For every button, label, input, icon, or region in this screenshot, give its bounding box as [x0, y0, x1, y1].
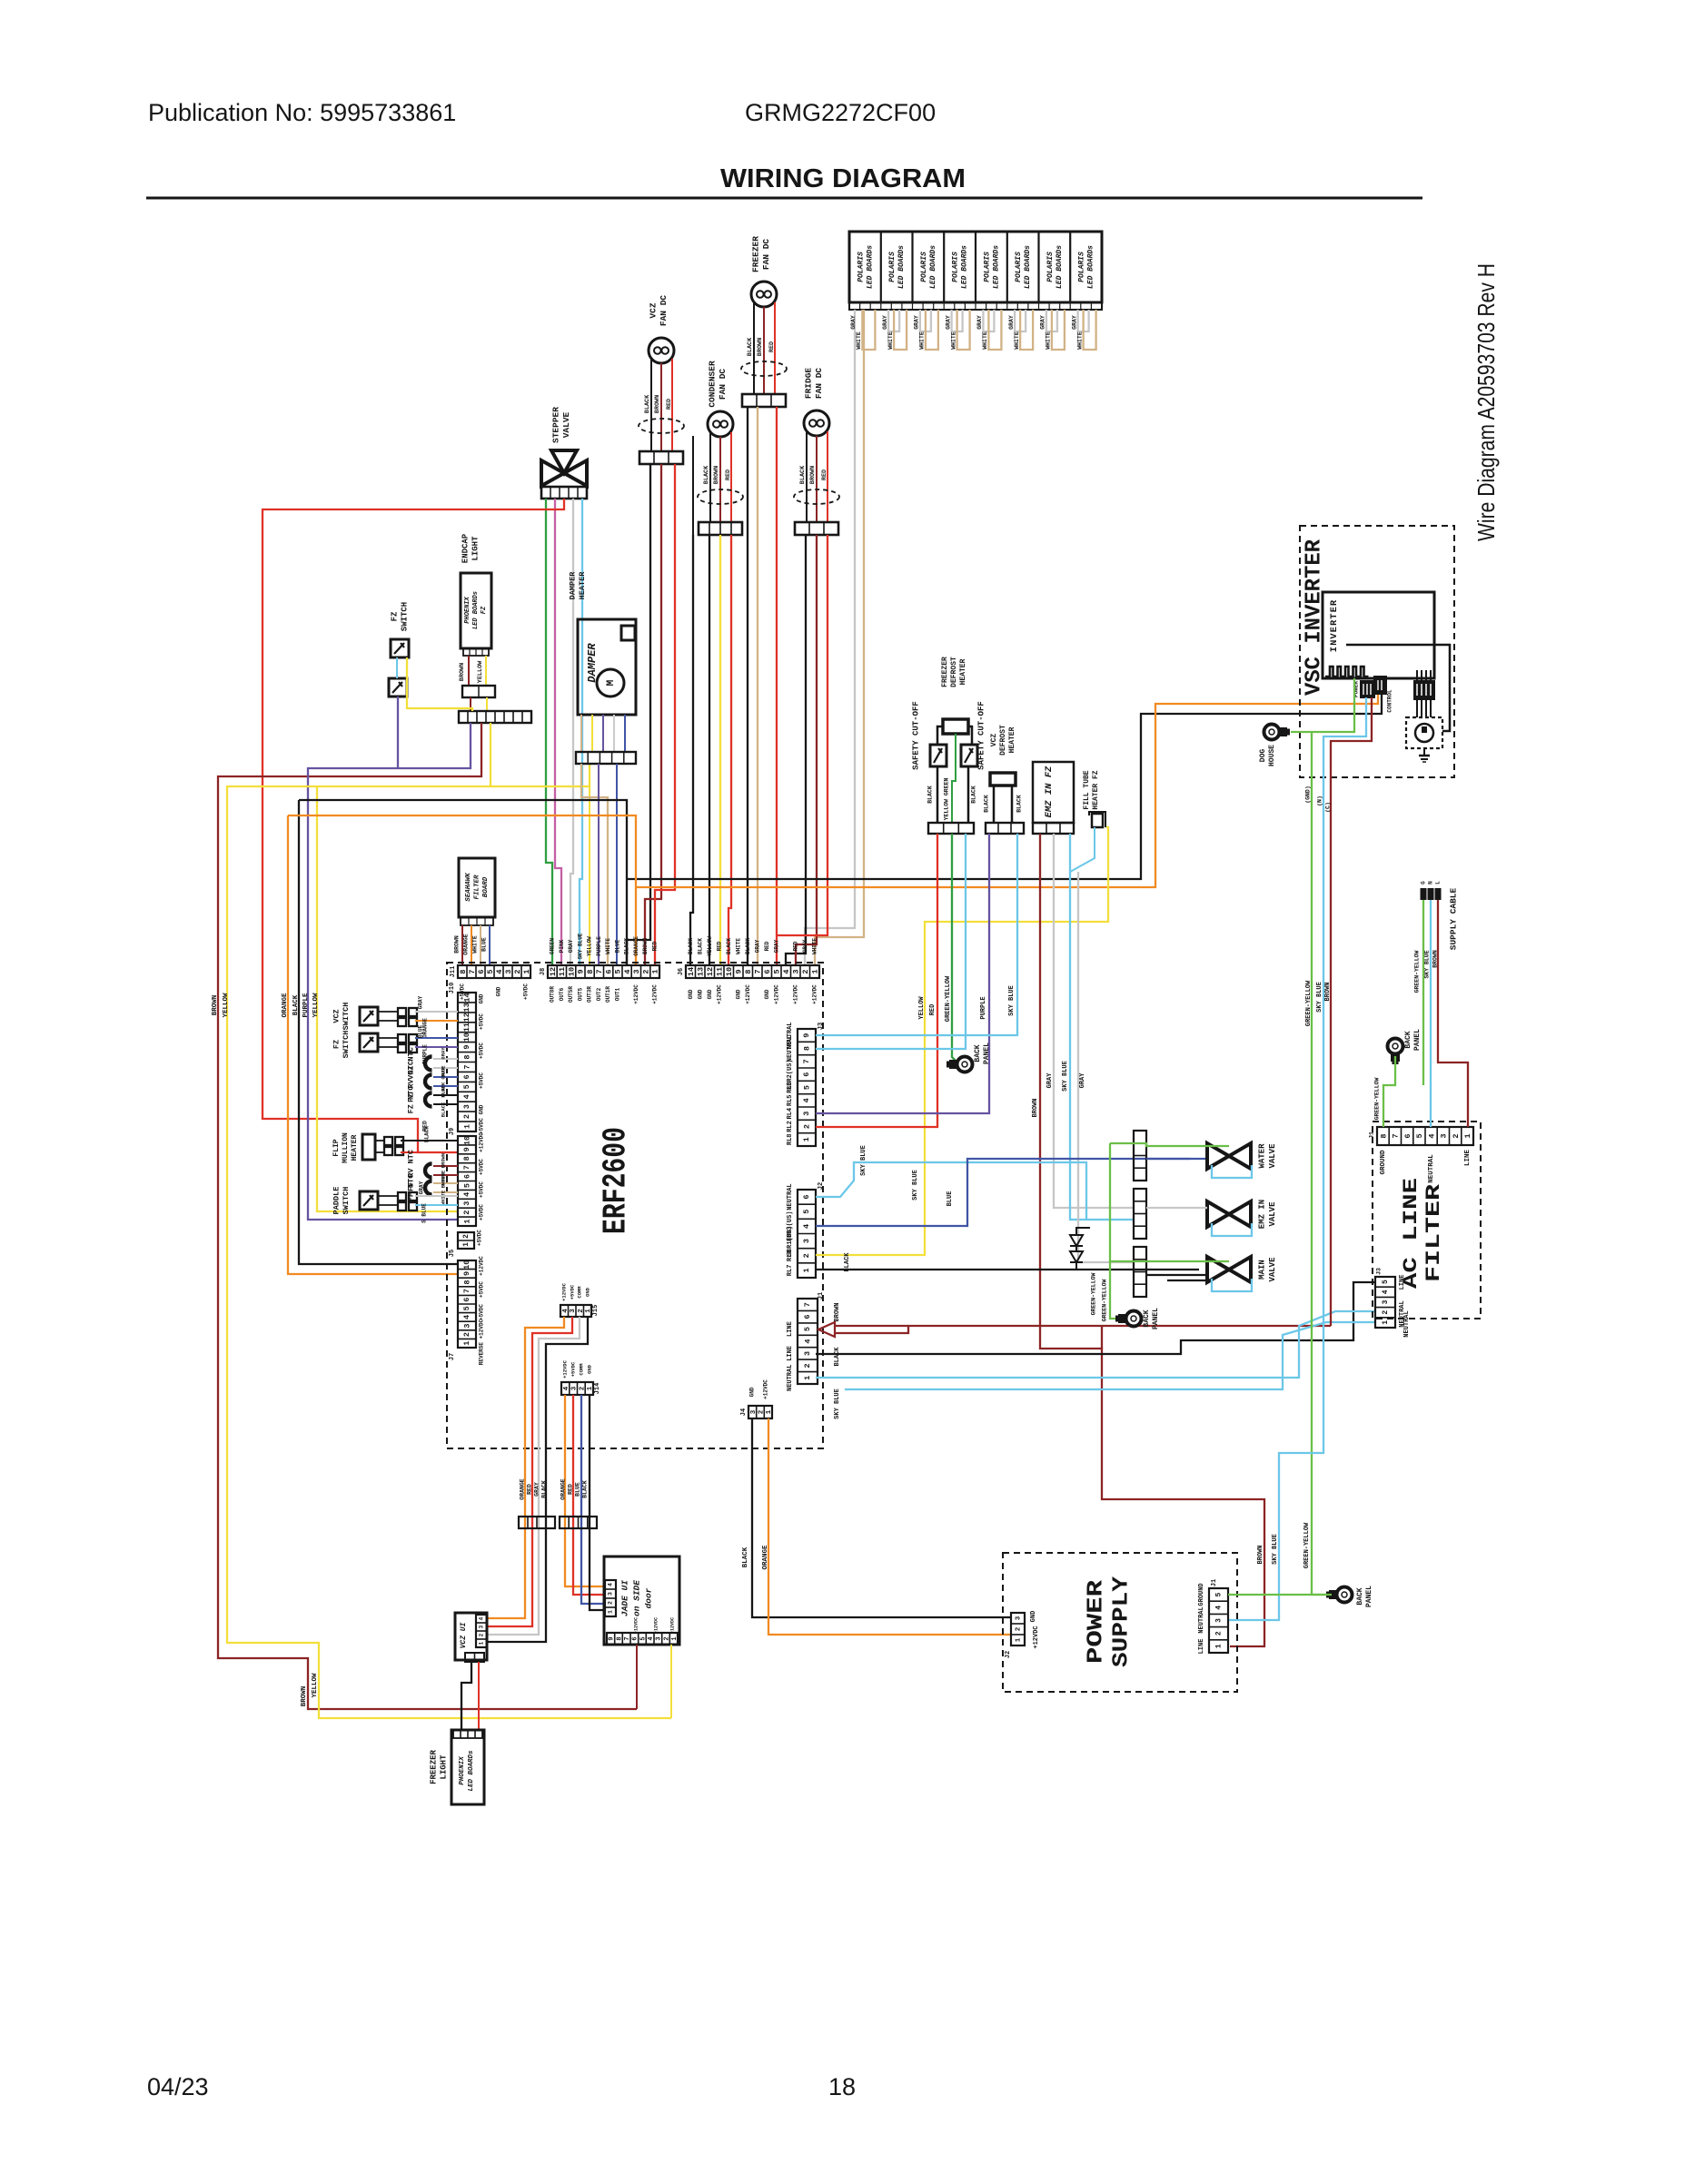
svg-text:GRAY: GRAY — [1046, 1072, 1054, 1089]
svg-text:10: 10 — [462, 1136, 471, 1145]
svg-text:J14: J14 — [594, 1383, 601, 1395]
svg-text:2: 2 — [513, 969, 522, 973]
svg-text:3: 3 — [1382, 1300, 1390, 1304]
svg-text:SKY BLUE: SKY BLUE — [577, 933, 583, 959]
svg-text:BROWN: BROWN — [459, 663, 466, 681]
svg-text:LED BOARDs: LED BOARDs — [1056, 245, 1064, 289]
svg-text:5: 5 — [1215, 1593, 1224, 1597]
svg-text:FLIP: FLIP — [332, 1139, 341, 1156]
svg-text:+5VDC: +5VDC — [479, 1181, 485, 1198]
svg-text:GRAY: GRAY — [773, 939, 779, 953]
svg-text:2: 2 — [1015, 1626, 1022, 1631]
svg-text:REVERSE +12VDC: REVERSE +12VDC — [479, 1319, 485, 1365]
svg-text:SKY BLUE: SKY BLUE — [834, 1388, 841, 1419]
svg-text:GRAY: GRAY — [976, 315, 983, 330]
svg-text:GRMG2272CF00: GRMG2272CF00 — [745, 99, 936, 126]
svg-text:3: 3 — [462, 1104, 471, 1109]
svg-text:4: 4 — [479, 1616, 485, 1620]
svg-text:RED: RED — [764, 941, 770, 951]
svg-text:1: 1 — [462, 1124, 471, 1129]
svg-text:YELLOW: YELLOW — [223, 993, 230, 1018]
svg-text:+5VDC: +5VDC — [479, 1118, 485, 1134]
svg-text:SKY BLUE: SKY BLUE — [1062, 1061, 1069, 1092]
svg-text:1: 1 — [766, 1409, 773, 1414]
svg-text:BLACK: BLACK — [440, 1082, 446, 1097]
svg-text:GND: GND — [496, 986, 502, 996]
svg-text:POLARIS: POLARIS — [952, 252, 960, 282]
svg-text:HEATER: HEATER — [959, 658, 967, 685]
svg-text:7: 7 — [462, 1289, 471, 1293]
svg-text:PANEL: PANEL — [1365, 1586, 1373, 1607]
svg-text:12: 12 — [462, 1013, 471, 1022]
svg-text:GRAY: GRAY — [568, 939, 574, 953]
svg-text:+5VDC: +5VDC — [479, 1043, 485, 1059]
svg-text:BROWN: BROWN — [834, 1302, 841, 1321]
svg-text:SKY BLUE: SKY BLUE — [912, 1170, 919, 1201]
svg-text:3: 3 — [802, 1239, 811, 1243]
svg-text:1: 1 — [802, 1268, 811, 1272]
svg-text:VALVE: VALVE — [1268, 1201, 1277, 1227]
svg-text:BROWN: BROWN — [809, 466, 817, 484]
svg-text:3: 3 — [791, 969, 800, 973]
svg-text:5: 5 — [614, 969, 623, 973]
svg-text:+12VDC: +12VDC — [633, 1617, 639, 1634]
svg-text:GREEN-YELLOW: GREEN-YELLOW — [1102, 1279, 1108, 1321]
svg-text:J10: J10 — [449, 983, 456, 994]
svg-text:EMZ IN FZ: EMZ IN FZ — [1044, 766, 1055, 817]
svg-text:BACK: BACK — [974, 1044, 982, 1062]
svg-text:9: 9 — [577, 969, 586, 973]
svg-text:HEATER: HEATER — [1008, 726, 1016, 753]
svg-text:OUT1: OUT1 — [614, 987, 620, 1001]
svg-text:FAN DC: FAN DC — [814, 368, 824, 400]
svg-text:LED BOARDs: LED BOARDs — [1087, 245, 1095, 289]
svg-text:RL8: RL8 — [787, 1133, 794, 1145]
svg-text:BROWN: BROWN — [1032, 1098, 1039, 1117]
svg-text:POWER: POWER — [1084, 1579, 1108, 1664]
svg-text:4: 4 — [802, 1098, 811, 1102]
svg-text:SUPPLY: SUPPLY — [1109, 1576, 1134, 1667]
svg-text:4: 4 — [495, 969, 504, 973]
svg-text:3: 3 — [462, 1201, 471, 1206]
svg-text:18: 18 — [828, 2073, 856, 2100]
svg-text:13: 13 — [696, 967, 705, 976]
svg-text:6: 6 — [803, 1315, 812, 1319]
svg-text:SKY BLUE: SKY BLUE — [1008, 985, 1016, 1016]
svg-text:12: 12 — [706, 967, 715, 976]
svg-text:1: 1 — [1463, 1133, 1472, 1138]
svg-text:PINK: PINK — [559, 939, 565, 953]
svg-text:9: 9 — [609, 1636, 616, 1640]
svg-text:BLACK: BLACK — [834, 1347, 841, 1367]
svg-text:(C): (C) — [1325, 802, 1332, 813]
svg-text:2: 2 — [579, 1386, 586, 1390]
svg-text:BLACK: BLACK — [697, 938, 703, 954]
svg-text:WHITE: WHITE — [735, 938, 741, 954]
svg-text:NEUTRAL: NEUTRAL — [787, 1365, 794, 1391]
svg-text:MULLION: MULLION — [342, 1132, 350, 1163]
svg-text:WHITE: WHITE — [919, 331, 926, 350]
svg-text:6: 6 — [632, 1636, 639, 1640]
svg-text:+12VDC: +12VDC — [773, 984, 779, 1004]
svg-text:+12VDC: +12VDC — [1033, 1626, 1040, 1648]
svg-text:GROUND: GROUND — [1198, 1583, 1205, 1606]
svg-text:GRAY: GRAY — [440, 1047, 446, 1060]
svg-text:BLACK: BLACK — [844, 1252, 851, 1272]
svg-text:9: 9 — [734, 969, 743, 973]
svg-text:BROWN: BROWN — [1257, 1545, 1264, 1564]
svg-text:1: 1 — [462, 1242, 471, 1247]
svg-text:RED: RED — [929, 1004, 937, 1016]
svg-text:ORANGE: ORANGE — [282, 993, 289, 1018]
svg-text:POLARIS: POLARIS — [1046, 252, 1055, 282]
svg-text:LINE: LINE — [1198, 1639, 1205, 1655]
svg-text:3: 3 — [504, 969, 513, 973]
svg-text:4: 4 — [562, 1309, 570, 1313]
svg-text:2: 2 — [802, 1253, 811, 1258]
svg-text:3: 3 — [803, 1351, 812, 1356]
svg-text:LINE: LINE — [1464, 1150, 1472, 1167]
svg-text:BLUE: BLUE — [418, 1024, 424, 1038]
svg-text:GRAY: GRAY — [534, 1482, 540, 1497]
svg-text:1: 1 — [651, 969, 660, 973]
svg-text:GRAY: GRAY — [419, 1181, 425, 1194]
svg-text:+12VDC: +12VDC — [811, 984, 818, 1004]
svg-text:WHITE: WHITE — [856, 331, 862, 350]
svg-text:OUT5: OUT5 — [577, 987, 583, 1001]
svg-text:BLACK: BLACK — [624, 938, 630, 954]
svg-text:1: 1 — [1015, 1637, 1022, 1642]
svg-text:BLUE: BLUE — [440, 1065, 446, 1078]
svg-text:+12VDC: +12VDC — [561, 1359, 568, 1379]
svg-text:RED: RED — [422, 1121, 429, 1132]
svg-text:+5VDC: +5VDC — [479, 1013, 485, 1030]
svg-text:4: 4 — [1427, 1133, 1436, 1138]
svg-text:WHITE: WHITE — [887, 331, 894, 350]
svg-text:HEATER FZ: HEATER FZ — [1092, 770, 1100, 809]
svg-text:1: 1 — [479, 1641, 485, 1645]
svg-text:MAIN: MAIN — [1257, 1260, 1266, 1280]
svg-text:WATER: WATER — [1257, 1143, 1266, 1169]
svg-text:INVERTER: INVERTER — [1329, 599, 1340, 652]
svg-text:(N): (N) — [1317, 796, 1323, 806]
svg-text:G: G — [1421, 881, 1427, 884]
svg-text:BLACK: BLACK — [747, 337, 754, 356]
svg-text:BROWN: BROWN — [757, 338, 764, 356]
svg-text:11: 11 — [715, 967, 724, 976]
svg-text:+5VDC: +5VDC — [477, 1230, 483, 1246]
svg-text:14: 14 — [687, 967, 696, 976]
svg-text:RED: RED — [768, 341, 776, 352]
svg-text:7: 7 — [462, 1165, 471, 1170]
svg-text:GREEN-YELLOW: GREEN-YELLOW — [1091, 1272, 1097, 1315]
svg-text:+12VDC: +12VDC — [479, 1256, 485, 1276]
svg-text:+5VDC: +5VDC — [479, 1072, 485, 1089]
svg-text:7: 7 — [1392, 1133, 1401, 1138]
svg-text:YELLOW: YELLOW — [477, 660, 484, 683]
svg-text:GRAY: GRAY — [850, 315, 857, 330]
svg-text:3: 3 — [462, 1323, 471, 1328]
svg-text:CONTROL: CONTROL — [1387, 689, 1393, 713]
svg-text:SEAHAWK: SEAHAWK — [465, 873, 472, 902]
svg-text:NEUTRAL: NEUTRAL — [787, 1035, 794, 1062]
svg-text:SKY BLUE: SKY BLUE — [1316, 982, 1323, 1013]
svg-text:2: 2 — [1215, 1631, 1224, 1636]
svg-text:VALVE: VALVE — [561, 411, 571, 438]
svg-text:FREEZER: FREEZER — [429, 1750, 438, 1784]
svg-text:FZ: FZ — [481, 606, 488, 614]
svg-text:FAN DC: FAN DC — [761, 239, 771, 271]
svg-text:BLACK: BLACK — [644, 394, 651, 413]
svg-text:1: 1 — [803, 1376, 812, 1380]
svg-text:POLARIS: POLARIS — [984, 252, 992, 282]
svg-text:8: 8 — [462, 1156, 471, 1161]
svg-text:12: 12 — [549, 967, 558, 976]
svg-text:+12VDC: +12VDC — [633, 984, 639, 1004]
svg-text:6: 6 — [604, 969, 613, 973]
svg-text:WHITE: WHITE — [950, 331, 956, 350]
svg-text:GRAY: GRAY — [1040, 315, 1046, 330]
svg-text:GREEN-YELLOW: GREEN-YELLOW — [1374, 1077, 1381, 1120]
svg-text:5: 5 — [639, 1636, 647, 1640]
svg-text:4: 4 — [1382, 1290, 1390, 1294]
svg-text:5: 5 — [1415, 1133, 1424, 1138]
svg-text:6: 6 — [802, 1072, 811, 1077]
svg-text:RL4: RL4 — [787, 1108, 794, 1120]
svg-text:GND: GND — [688, 989, 694, 999]
svg-text:ORANGE: ORANGE — [560, 1478, 567, 1500]
svg-text:J2: J2 — [818, 1182, 825, 1190]
svg-text:6: 6 — [462, 1298, 471, 1302]
svg-text:LIGHT: LIGHT — [439, 1754, 448, 1780]
svg-text:YELLOW: YELLOW — [312, 993, 320, 1018]
svg-text:SUPPLY CABLE: SUPPLY CABLE — [1449, 888, 1459, 951]
svg-text:3: 3 — [1015, 1616, 1022, 1620]
svg-text:OUT6: OUT6 — [559, 987, 565, 1001]
svg-text:5: 5 — [462, 1306, 471, 1310]
svg-text:13: 13 — [462, 1003, 471, 1012]
svg-text:ORANGE: ORANGE — [463, 934, 470, 955]
svg-text:COMM: COMM — [578, 1363, 584, 1376]
svg-text:WIRING DIAGRAM: WIRING DIAGRAM — [720, 164, 966, 193]
svg-text:YELLOW: YELLOW — [312, 1673, 319, 1698]
svg-text:+12VDC: +12VDC — [763, 1379, 769, 1399]
svg-text:POLARIS: POLARIS — [1015, 252, 1023, 282]
svg-text:J6: J6 — [678, 968, 685, 975]
svg-text:BROWN: BROWN — [301, 1686, 308, 1707]
svg-text:+12VDC: +12VDC — [651, 984, 658, 1004]
svg-text:4: 4 — [462, 1192, 471, 1197]
svg-text:WHITE: WHITE — [1046, 331, 1052, 350]
svg-text:FREEZER: FREEZER — [941, 657, 949, 687]
svg-text:SAFETY CUT-OFF: SAFETY CUT-OFF — [911, 701, 920, 770]
svg-text:BLACK: BLACK — [799, 465, 807, 484]
svg-text:4: 4 — [623, 969, 632, 973]
svg-text:4: 4 — [462, 1094, 471, 1099]
svg-text:3: 3 — [656, 1636, 663, 1640]
svg-text:5: 5 — [802, 1085, 811, 1090]
svg-text:GND: GND — [707, 989, 713, 999]
svg-text:J3: J3 — [1376, 1268, 1383, 1275]
svg-text:POLARIS: POLARIS — [888, 252, 897, 282]
svg-text:BLACK: BLACK — [984, 795, 990, 813]
svg-text:BROWN: BROWN — [654, 395, 661, 413]
svg-text:SKY BLUE: SKY BLUE — [860, 1145, 867, 1176]
svg-text:POLARIS: POLARIS — [920, 252, 928, 282]
svg-text:8: 8 — [462, 1280, 471, 1284]
svg-text:LINE: LINE — [787, 1346, 794, 1361]
svg-text:5: 5 — [462, 1084, 471, 1089]
svg-text:NEUTRAL: NEUTRAL — [1428, 1154, 1435, 1183]
svg-text:+5VDC: +5VDC — [479, 1304, 485, 1320]
svg-text:9: 9 — [802, 1033, 811, 1038]
svg-text:CONDENSER: CONDENSER — [708, 361, 718, 408]
svg-text:+12VDC: +12VDC — [560, 1282, 567, 1301]
svg-text:+12VDC: +12VDC — [653, 1617, 659, 1634]
svg-text:STEPPER: STEPPER — [551, 407, 561, 443]
svg-text:6: 6 — [802, 1195, 811, 1200]
svg-text:FILL TUBE: FILL TUBE — [1083, 770, 1091, 809]
svg-text:6: 6 — [1403, 1133, 1412, 1138]
svg-text:BROWN: BROWN — [642, 938, 649, 954]
svg-text:4: 4 — [462, 1315, 471, 1319]
svg-text:8: 8 — [586, 969, 595, 973]
svg-text:EMZ IN: EMZ IN — [1257, 1200, 1266, 1229]
svg-text:S BLUE: S BLUE — [421, 1203, 428, 1223]
svg-text:J1: J1 — [1369, 1132, 1375, 1139]
svg-text:J1: J1 — [818, 1292, 825, 1300]
svg-text:YELLOW: YELLOW — [587, 936, 593, 956]
svg-text:VALVE: VALVE — [1268, 1143, 1277, 1169]
svg-text:6: 6 — [763, 969, 772, 973]
svg-text:(GND): (GND) — [1305, 786, 1312, 804]
svg-text:6: 6 — [477, 969, 486, 973]
svg-text:GREEN-YELLOW: GREEN-YELLOW — [1303, 1522, 1311, 1568]
svg-text:WHITE: WHITE — [811, 938, 818, 954]
svg-text:+5VDC: +5VDC — [479, 1204, 485, 1220]
svg-text:BLACK: BLACK — [971, 786, 977, 804]
svg-text:DOG: DOG — [1259, 749, 1267, 763]
svg-text:BLACK: BLACK — [688, 938, 694, 954]
svg-text:2: 2 — [1452, 1133, 1461, 1138]
svg-text:GRAY: GRAY — [914, 315, 920, 330]
svg-text:LED BOARDs: LED BOARDs — [468, 1750, 475, 1792]
svg-text:3: 3 — [750, 1409, 758, 1414]
svg-text:LINE: LINE — [1399, 1275, 1406, 1290]
svg-text:1: 1 — [462, 1341, 471, 1346]
svg-text:BLACK: BLACK — [745, 938, 751, 954]
svg-text:VCZ: VCZ — [990, 734, 998, 747]
svg-text:J9: J9 — [449, 1128, 456, 1135]
svg-text:VCZ: VCZ — [332, 1009, 341, 1023]
svg-text:1: 1 — [671, 1636, 679, 1640]
svg-text:4: 4 — [803, 1339, 812, 1343]
svg-text:DEFROST: DEFROST — [950, 657, 958, 687]
svg-text:PHOENIX: PHOENIX — [464, 596, 471, 623]
svg-text:BLUE: BLUE — [575, 1482, 581, 1497]
svg-text:RED: RED — [716, 941, 722, 951]
svg-text:+5VDC: +5VDC — [523, 983, 530, 1000]
svg-text:5: 5 — [803, 1327, 812, 1331]
svg-text:GREEN-YELLOW: GREEN-YELLOW — [1414, 950, 1421, 993]
svg-text:8: 8 — [744, 969, 753, 973]
svg-text:ENDCAP: ENDCAP — [461, 533, 470, 563]
svg-text:BROWN: BROWN — [1432, 950, 1439, 968]
svg-text:1: 1 — [522, 969, 531, 973]
svg-text:HOUSE: HOUSE — [1268, 745, 1276, 766]
svg-text:J15: J15 — [592, 1305, 600, 1317]
svg-text:YELLOW: YELLOW — [707, 936, 713, 956]
svg-text:J7: J7 — [449, 1353, 456, 1360]
svg-text:ERF2600: ERF2600 — [598, 1127, 635, 1234]
svg-text:9: 9 — [462, 1271, 471, 1276]
svg-text:WHITE: WHITE — [982, 331, 988, 350]
svg-text:PADDLE: PADDLE — [332, 1187, 341, 1215]
svg-text:RL5: RL5 — [787, 1094, 794, 1106]
svg-text:BROWN: BROWN — [440, 1153, 446, 1169]
svg-text:OUT2: OUT2 — [596, 987, 602, 1001]
svg-text:GRAY: GRAY — [882, 315, 888, 330]
svg-text:SWITCH: SWITCH — [342, 1003, 351, 1031]
svg-text:BLUE: BLUE — [947, 1191, 954, 1207]
svg-text:door: door — [644, 1587, 654, 1608]
svg-text:2: 2 — [663, 1636, 670, 1640]
svg-text:WHITE: WHITE — [1014, 331, 1020, 350]
svg-text:4: 4 — [648, 1636, 655, 1640]
svg-text:9: 9 — [462, 1147, 471, 1151]
svg-text:FILTER: FILTER — [473, 875, 481, 900]
svg-text:HEATER: HEATER — [351, 1134, 359, 1161]
svg-text:11: 11 — [462, 1023, 471, 1032]
svg-text:11: 11 — [558, 967, 567, 976]
svg-text:HEATER: HEATER — [578, 571, 587, 600]
svg-text:BLACK: BLACK — [1016, 795, 1023, 813]
svg-text:WHITE: WHITE — [440, 1190, 446, 1205]
svg-text:LINE: LINE — [787, 1321, 794, 1337]
svg-text:1: 1 — [1382, 1320, 1390, 1325]
svg-text:2: 2 — [802, 1124, 811, 1129]
svg-text:9: 9 — [462, 1045, 471, 1050]
svg-text:3: 3 — [1215, 1618, 1224, 1623]
svg-text:10: 10 — [725, 967, 734, 976]
svg-text:+5VDC: +5VDC — [479, 1159, 485, 1175]
svg-text:SWITCH: SWITCH — [400, 602, 409, 631]
svg-text:VALVE: VALVE — [1268, 1257, 1277, 1282]
svg-text:GRAY: GRAY — [754, 939, 760, 953]
svg-text:BLUE: BLUE — [481, 937, 488, 952]
svg-text:GND: GND — [764, 989, 770, 999]
svg-text:2: 2 — [462, 1114, 471, 1119]
svg-text:GRAY: GRAY — [945, 315, 951, 330]
svg-text:LED BOARDs: LED BOARDs — [472, 591, 480, 629]
svg-text:J8: J8 — [540, 968, 547, 975]
svg-text:LIGHT: LIGHT — [471, 536, 480, 561]
svg-text:8: 8 — [459, 969, 468, 973]
svg-text:BLACK: BLACK — [703, 465, 710, 484]
svg-text:LED BOARDs: LED BOARDs — [929, 245, 937, 289]
svg-text:BLACK: BLACK — [541, 1480, 548, 1498]
svg-text:1: 1 — [810, 969, 819, 973]
svg-text:1: 1 — [1215, 1644, 1224, 1648]
svg-text:5: 5 — [802, 1210, 811, 1214]
svg-text:GRAY: GRAY — [418, 995, 424, 1009]
svg-text:3: 3 — [479, 1625, 485, 1628]
svg-text:GRAY: GRAY — [802, 939, 808, 953]
svg-text:BROWN: BROWN — [1324, 982, 1332, 1001]
svg-text:+12VDC: +12VDC — [479, 1132, 485, 1152]
svg-text:BOARD: BOARD — [482, 876, 490, 897]
svg-text:GND: GND — [586, 1364, 592, 1374]
